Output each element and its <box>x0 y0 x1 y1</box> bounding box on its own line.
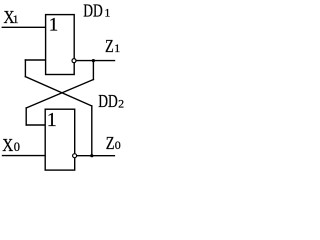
svg-text:1: 1 <box>47 109 57 131</box>
svg-text:DD: DD <box>98 91 118 111</box>
svg-text:2: 2 <box>118 96 124 110</box>
svg-text:Z: Z <box>105 36 114 56</box>
svg-text:X: X <box>2 135 13 155</box>
svg-text:1: 1 <box>104 6 110 20</box>
svg-text:DD: DD <box>83 0 103 20</box>
svg-text:Z: Z <box>106 133 115 153</box>
svg-text:1: 1 <box>114 41 120 55</box>
svg-text:1: 1 <box>13 12 19 26</box>
svg-text:1: 1 <box>49 15 59 36</box>
svg-text:0: 0 <box>14 140 20 154</box>
svg-text:0: 0 <box>115 138 121 152</box>
